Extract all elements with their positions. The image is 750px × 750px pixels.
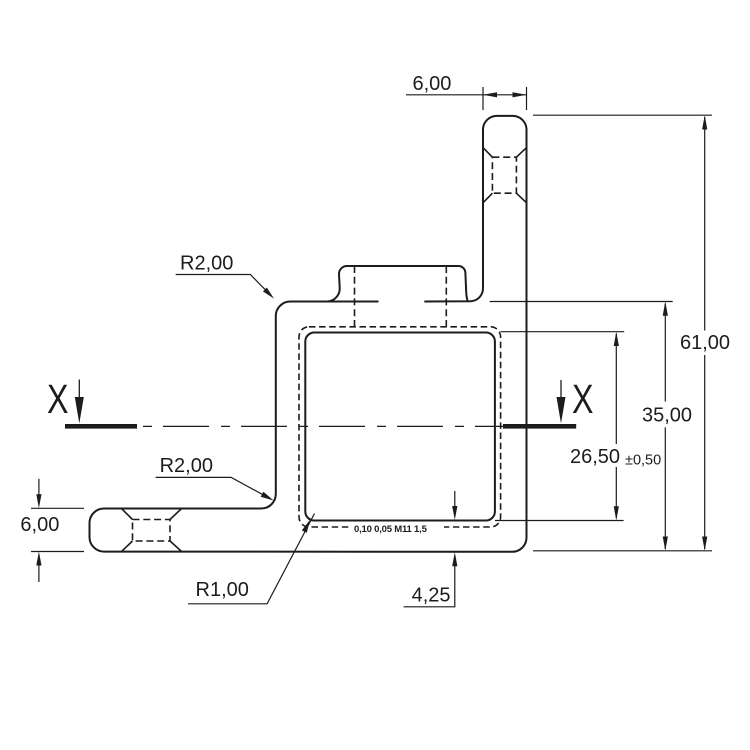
- dim 26,50 extension line bottom / inner square bottom extension: [495, 520, 624, 522]
- arrowhead R2,00 lower: [261, 492, 274, 501]
- dim 6,00 top: extension ticks: [483, 87, 527, 110]
- svg-text:0,10 0,05 M11 1,5: 0,10 0,05 M11 1,5: [354, 524, 428, 535]
- centerline (section X-X): [143, 425, 503, 427]
- inner square (pocket) R1 corners: [305, 333, 495, 521]
- dim 61,00 extension lines: [533, 115, 712, 551]
- svg-text:35,00: 35,00: [642, 404, 692, 426]
- leader R2,00 lower: [156, 477, 271, 498]
- dim 35,00 extension line top: [490, 301, 673, 303]
- svg-text:X: X: [47, 376, 69, 422]
- arrowhead dim 4,25 up: [452, 552, 457, 566]
- arrowheads dim 6,00 left: [36, 494, 41, 508]
- down arrow tail inside square: [454, 491, 456, 509]
- arrowheads dim 61,00: [702, 115, 707, 129]
- svg-text:R2,00: R2,00: [180, 253, 233, 275]
- arrowhead inner down: [452, 506, 457, 520]
- leader R2,00 upper: [176, 275, 270, 295]
- arrowheads dim 6,00 top: [483, 92, 497, 97]
- tab slot hidden lines: [354, 266, 356, 327]
- arrowheads dim 26,50: [614, 332, 619, 346]
- arrowhead R2,00 upper: [263, 288, 274, 299]
- section arrow right: [560, 380, 562, 400]
- svg-text:6,00: 6,00: [413, 73, 452, 95]
- left arm hole chamfer diagonals: [122, 509, 182, 552]
- section thick line right: [503, 424, 576, 429]
- dim 6,00 left arrow tails: [38, 479, 40, 582]
- svg-text:61,00: 61,00: [680, 332, 730, 354]
- section thick line left: [65, 424, 137, 429]
- dim 61,00 dimension line (broken at text): [704, 117, 706, 549]
- section arrow left: [78, 380, 80, 401]
- dashed square (hidden pocket edge): [299, 327, 501, 527]
- svg-text:X: X: [572, 376, 594, 422]
- hidden hole in left arm: [133, 520, 171, 542]
- svg-text:R2,00: R2,00: [160, 455, 213, 477]
- svg-text:26,50: 26,50: [570, 446, 620, 468]
- dim 6,00 top: dimension line: [406, 94, 527, 96]
- dim 35,00 dimension line (broken at text): [664, 304, 666, 550]
- svg-text:4,25: 4,25: [412, 585, 451, 607]
- part outline: body + left arm + right vertical arm: [90, 116, 527, 552]
- leader R1,00: [188, 514, 314, 604]
- dim 26,50 dimension line (broken at text): [615, 334, 617, 518]
- tab (boss) on top of body: [327, 266, 468, 302]
- svg-text:R1,00: R1,00: [196, 579, 249, 601]
- dim 4,25 leader: [404, 560, 455, 607]
- dim 6,00 left extension lines: [31, 508, 84, 551]
- arrowheads dim 35,00: [663, 302, 668, 316]
- top arm hole chamfer diagonals: [483, 148, 527, 203]
- dim 26,50 extension line top: [501, 331, 625, 333]
- svg-text:±0,50: ±0,50: [625, 453, 661, 469]
- hidden hole in top arm: [492, 157, 516, 193]
- white patch for micro-text row: [350, 522, 444, 533]
- arrowhead R1,00: [302, 520, 310, 533]
- svg-text:6,00: 6,00: [20, 514, 59, 536]
